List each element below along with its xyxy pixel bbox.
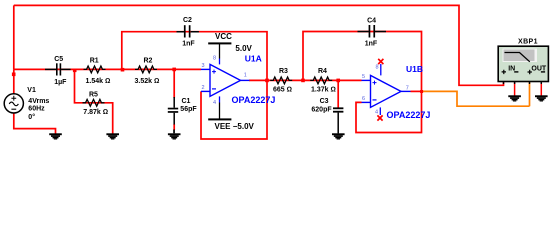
- wire XBP IN- to ground: [514, 82, 516, 96]
- ground below XBP1 OUT-: [535, 95, 548, 101]
- wire V1 top lead: [13, 69, 15, 94]
- wire top feedback to bode plotter IN: [14, 5, 504, 85]
- wire C4 feedback branch: [303, 32, 422, 92]
- ground below R5: [106, 133, 119, 139]
- node junction R3/R4/C4: [301, 79, 305, 83]
- wire C3 branch: [337, 80, 339, 108]
- svg-text:C3: C3: [320, 98, 329, 105]
- svg-text:R2: R2: [144, 57, 153, 64]
- power VCC symbol U1A: [208, 32, 252, 65]
- svg-text:4Vrms: 4Vrms: [28, 98, 49, 105]
- wire C1 branch: [173, 69, 175, 98]
- wire V1 bottom to ground: [14, 113, 56, 134]
- svg-text:1.54k Ω: 1.54k Ω: [86, 78, 111, 85]
- svg-text:3: 3: [202, 63, 205, 69]
- node junction U1B output/C4: [420, 90, 423, 93]
- svg-text:OPA2227J: OPA2227J: [232, 95, 276, 105]
- op-amp U1A: [201, 54, 275, 106]
- node junction R5 tap: [73, 69, 77, 73]
- capacitor C1: [168, 97, 198, 125]
- svg-text:1µF: 1µF: [54, 79, 67, 86]
- wire U1B inverting feedback loop: [356, 91, 422, 132]
- svg-text:5: 5: [362, 74, 365, 80]
- node junction U1A output/C2: [265, 79, 269, 83]
- resistor R3: [270, 68, 292, 94]
- no-connect X mark U1B VEE pin: [377, 115, 382, 120]
- svg-text:8: 8: [213, 56, 216, 62]
- svg-text:2: 2: [202, 85, 205, 91]
- wire main row stage1: [14, 68, 201, 70]
- svg-text:V1: V1: [27, 87, 36, 94]
- wire U1A output row stage2: [249, 79, 362, 81]
- svg-text:C4: C4: [367, 18, 376, 25]
- node junction V1/C5/feedback: [12, 73, 16, 77]
- svg-text:VCC: VCC: [215, 32, 232, 41]
- svg-text:1.37k Ω: 1.37k Ω: [311, 87, 336, 94]
- svg-text:U1A: U1A: [245, 54, 262, 64]
- capacitor C3: [311, 98, 343, 133]
- svg-text:56pF: 56pF: [180, 106, 197, 113]
- ground below XBP1 IN-: [508, 95, 521, 101]
- wire orange output to bode plotter OUT: [422, 81, 530, 106]
- svg-text:OPA2227J: OPA2227J: [387, 110, 431, 120]
- svg-text:R5: R5: [89, 92, 98, 99]
- resistor R5: [83, 92, 109, 116]
- resistor R4: [310, 68, 336, 94]
- svg-text:IN: IN: [508, 65, 515, 72]
- svg-text:0°: 0°: [28, 113, 35, 121]
- wire U1B output: [411, 90, 422, 92]
- svg-text:C1: C1: [182, 98, 191, 105]
- capacitor C5: [45, 56, 71, 86]
- ground below C1: [168, 130, 181, 140]
- node junction R1/R2/C2: [121, 68, 125, 72]
- op-amp U1B: [362, 64, 431, 120]
- svg-text:C5: C5: [54, 56, 63, 63]
- svg-text:620pF: 620pF: [311, 106, 332, 113]
- svg-text:4: 4: [213, 100, 216, 106]
- ground below C3: [332, 133, 345, 139]
- svg-text:8: 8: [376, 64, 379, 70]
- source V1: [4, 87, 49, 121]
- svg-text:3.52k Ω: 3.52k Ω: [135, 78, 160, 85]
- resistor R1: [84, 58, 111, 85]
- capacitor C4: [358, 18, 387, 48]
- svg-text:R1: R1: [90, 58, 99, 65]
- svg-text:XBP1: XBP1: [518, 38, 538, 45]
- svg-text:7.87k Ω: 7.87k Ω: [83, 109, 108, 116]
- wire C1 lower lead red segment: [173, 124, 175, 130]
- wire XBP OUT- to ground: [540, 82, 542, 96]
- svg-text:1nF: 1nF: [182, 40, 195, 47]
- resistor R2: [135, 57, 160, 85]
- capacitor C2: [177, 17, 199, 47]
- svg-text:1nF: 1nF: [365, 41, 378, 48]
- power VEE symbol U1A: [208, 96, 254, 131]
- svg-text:665 Ω: 665 Ω: [273, 87, 292, 94]
- svg-text:C2: C2: [183, 17, 192, 24]
- svg-text:VEE −5.0V: VEE −5.0V: [215, 122, 255, 131]
- wire U1A inverting feedback loop: [201, 80, 267, 139]
- svg-text:R4: R4: [318, 68, 327, 75]
- instrument XBP1 bode plotter: [498, 38, 548, 84]
- svg-text:7: 7: [406, 85, 409, 91]
- svg-text:5.0V: 5.0V: [235, 44, 252, 53]
- wire C2 feedback branch: [122, 32, 267, 81]
- no-connect X mark U1B VCC pin: [378, 59, 383, 64]
- svg-text:4: 4: [375, 110, 378, 116]
- svg-text:60Hz: 60Hz: [28, 106, 45, 113]
- node junction C3 tap: [336, 79, 340, 83]
- ground below V1: [49, 133, 62, 139]
- wire left vertical input: [13, 5, 15, 69]
- svg-text:6: 6: [362, 96, 365, 102]
- svg-text:U1B: U1B: [406, 64, 423, 74]
- node junction C1 tap: [172, 68, 176, 72]
- svg-text:R3: R3: [279, 68, 288, 75]
- svg-text:1: 1: [244, 73, 247, 79]
- wire R5 branch: [75, 69, 113, 133]
